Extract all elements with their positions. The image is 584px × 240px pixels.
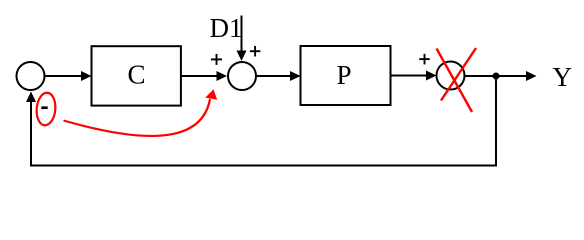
svg-text:C: C <box>127 60 145 90</box>
red curved arrow annotation <box>64 99 211 136</box>
wire S2 to P <box>257 75 292 77</box>
block P <box>301 46 391 105</box>
minus sign at S1 <box>41 106 47 109</box>
red ellipse annotation around minus <box>35 92 56 126</box>
plus sign at S3 left <box>419 54 430 65</box>
plus sign at S2 left <box>211 54 222 65</box>
svg-text:P: P <box>336 60 351 90</box>
summing junction S2 <box>228 62 256 90</box>
summing junction S3 <box>437 62 465 90</box>
wire S3 to output Y <box>466 75 528 77</box>
node junction dot <box>493 73 500 80</box>
svg-text:Y: Y <box>553 62 573 92</box>
summing junction S1 <box>17 62 45 90</box>
wire P to S3 <box>391 75 428 77</box>
red X cross-out line 1 <box>437 49 473 113</box>
svg-text:D1: D1 <box>210 13 243 43</box>
block C <box>92 46 181 105</box>
red X cross-out line 2 <box>441 48 476 101</box>
wire D1 arrow <box>241 16 243 52</box>
wire S1 to C <box>46 75 83 77</box>
wire feedback path <box>31 78 496 166</box>
wire C to S2 <box>181 75 218 77</box>
plus sign at S2 top <box>250 46 261 57</box>
